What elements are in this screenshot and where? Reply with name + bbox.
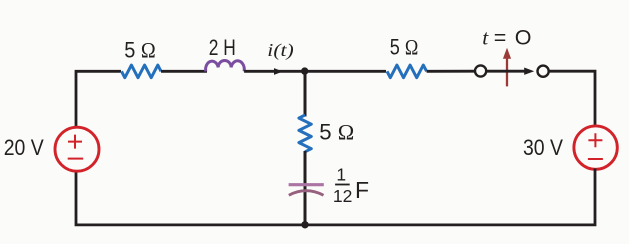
capacitor C1 curved bottom plate [289, 191, 324, 196]
capacitor C1 top plate [289, 183, 324, 186]
svg-text:F: F [355, 177, 369, 203]
wire middle branch (node A down to R3) [304, 71, 307, 116]
svg-text:12: 12 [333, 186, 352, 206]
node B junction dot (bottom middle) [301, 221, 308, 228]
wire top-left segment (left corner to R1) [76, 71, 121, 127]
wire node A to R2 [305, 70, 386, 73]
wire inductor to node A with current arrow [244, 70, 305, 73]
wire R3 to capacitor and through to node B [304, 151, 307, 225]
switch right terminal circle [538, 66, 549, 77]
switch blade wire with closing arrowhead [487, 70, 526, 73]
V1 plus sign [68, 135, 82, 149]
switch left terminal circle [475, 65, 486, 76]
V1 minus sign [68, 158, 84, 160]
V2 minus sign [588, 158, 603, 160]
resistor R2 5Ω (top right, horizontal) [387, 65, 427, 78]
wire V2 bottom to bottom-right corner [305, 169, 595, 225]
wire R2 to switch [427, 70, 476, 73]
V2 plus sign [588, 133, 602, 147]
wire switch to top-right corner and down [549, 71, 595, 128]
svg-text:30 V: 30 V [523, 135, 563, 160]
voltage source V2 30V circle [574, 126, 617, 169]
node A junction dot (top middle) [301, 67, 308, 74]
svg-text:5 Ω: 5 Ω [319, 120, 354, 145]
svg-text:5 Ω: 5 Ω [124, 37, 156, 62]
wire R1 to inductor [161, 70, 207, 73]
switch action arrow (red, t=0) [506, 57, 508, 87]
voltage source V1 20V circle [55, 127, 99, 171]
svg-text:1: 1 [336, 164, 346, 184]
svg-text:2 H: 2 H [209, 35, 236, 60]
svg-text:5 Ω: 5 Ω [390, 35, 419, 60]
svg-text:20 V: 20 V [4, 135, 44, 160]
bottom wire node B to bottom-left corner [76, 170, 305, 225]
current arrowhead i(t) [274, 68, 283, 75]
resistor R3 5Ω (middle, vertical) [299, 115, 311, 152]
inductor L1 2H [206, 60, 245, 71]
resistor R1 5Ω (top left, horizontal) [122, 65, 162, 78]
svg-text:i(t): i(t) [267, 40, 294, 61]
